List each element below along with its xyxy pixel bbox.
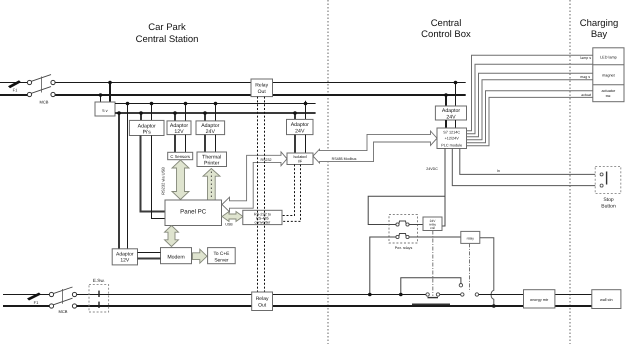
svg-text:Modem: Modem (167, 255, 184, 261)
svg-text:energy mtr: energy mtr (530, 298, 549, 302)
box energy meter (524, 290, 555, 308)
thick overlay segment near contacts (412, 303, 450, 305)
svg-text:F1: F1 (34, 300, 39, 305)
box RS232 converter (243, 210, 282, 224)
fuse F1 bottom (27, 293, 41, 306)
stop button dashed box (595, 166, 621, 209)
wire A24V top right drops (444, 81, 457, 106)
svg-text:relay: relay (467, 236, 475, 240)
svg-text:Adaptor: Adaptor (170, 123, 188, 129)
green down arrow Panel PC to Modem (165, 226, 179, 247)
svg-text:Charging: Charging (580, 18, 619, 29)
svg-text:E.Sw.: E.Sw. (93, 278, 105, 283)
section divider right (569, 0, 571, 344)
vertical label RS232 (161, 167, 166, 195)
wire long drop to Adaptor 12V (lower rail) (118, 113, 120, 249)
wire relay2 to bottom bus with hop (480, 238, 496, 308)
svg-text:Button: Button (601, 204, 616, 210)
junction dot (108, 81, 112, 85)
svg-text:+12/24V: +12/24V (445, 136, 460, 140)
svg-text:Car Park: Car Park (148, 22, 186, 33)
svg-text:Panel PC: Panel PC (180, 209, 207, 216)
box Adaptor 12V bottom (112, 249, 137, 265)
svg-text:12V: 12V (174, 129, 184, 135)
svg-text:5 v: 5 v (102, 108, 107, 113)
svg-text:Adaptor: Adaptor (138, 123, 156, 129)
box Panel PC (165, 200, 222, 226)
wires Adaptor12V to Modem (138, 253, 161, 259)
box C sensors (168, 152, 193, 159)
svg-text:24V: 24V (446, 115, 456, 121)
box Relay Out top (251, 79, 273, 97)
adaptor A3 24V (196, 121, 225, 135)
wire A1 to Panel PC (1) (141, 136, 166, 212)
svg-text:LED lamp: LED lamp (600, 56, 617, 60)
contact upper in dashed box (389, 221, 423, 226)
contact B on bus (461, 293, 479, 296)
dashed pair isolator to converter (282, 165, 301, 222)
svg-text:Server: Server (214, 257, 229, 263)
dashed relay pair top relayout to bottom relayout (258, 97, 265, 292)
contact A on bus (426, 293, 440, 296)
contact lower in dashed box (370, 234, 461, 295)
wire drop to PSU from N (100, 95, 102, 102)
svg-text:24V: 24V (206, 129, 216, 135)
wire bottom bus L (thin, with contacts) (3, 294, 592, 296)
svg-text:Pwr. relays: Pwr. relays (395, 246, 413, 250)
svg-text:MCB: MCB (40, 100, 49, 105)
svg-text:Isolated: Isolated (293, 155, 306, 159)
PSU box 5v (95, 102, 115, 116)
adaptor A4 24V (287, 119, 314, 134)
wire top bus N (0, 94, 466, 96)
dash-dot link coil to contact A (428, 231, 439, 298)
svg-text:PLC module: PLC module (441, 144, 462, 148)
svg-text:Control Box: Control Box (421, 29, 471, 40)
svg-text:Central: Central (431, 18, 462, 29)
box wall socket (592, 290, 621, 309)
wire long drop to Adaptor 12V (upper rail) (127, 104, 129, 249)
box relay coil (423, 217, 442, 231)
section divider left (327, 0, 329, 344)
wires Adaptor 24V(a) top (203, 102, 217, 121)
svg-text:mag s: mag s (580, 75, 590, 79)
charging bay device stack (593, 48, 624, 102)
svg-text:magnet: magnet (602, 74, 616, 78)
wires Adaptor 24V(b) top (293, 101, 307, 120)
svg-text:Adaptor: Adaptor (442, 108, 460, 114)
svg-text:Relay: Relay (255, 83, 268, 89)
title Central Control Box (421, 18, 471, 40)
svg-text:24VDC: 24VDC (426, 167, 438, 171)
svg-text:lamp s: lamp s (580, 56, 591, 60)
hollow arrow Panel PC to isolator (bent, double head) (222, 152, 287, 212)
svg-text:coil: coil (430, 226, 435, 230)
wires A3 to Thermal Printer (205, 135, 216, 152)
svg-text:Relay: Relay (256, 296, 269, 302)
svg-text:24V: 24V (295, 128, 305, 134)
svg-text:wall stn: wall stn (600, 298, 613, 302)
PLC fan-out wires to charging bay (467, 55, 593, 146)
svg-text:F1: F1 (13, 88, 18, 93)
junction dot (99, 93, 103, 97)
svg-text:In: In (497, 169, 500, 173)
wires A4 to isolator (295, 135, 306, 153)
svg-text:Out: Out (258, 89, 267, 95)
hollow arrow isolator to PLC (bent, double head) (313, 131, 437, 163)
svg-text:RS232: RS232 (261, 158, 272, 162)
svg-text:I/F: I/F (298, 160, 303, 164)
box Relay Out bottom (252, 292, 273, 311)
green double arrow C sensors to Panel PC (172, 160, 189, 200)
title Charging Bay (580, 18, 619, 40)
wires PLC to stop button (452, 149, 595, 186)
wire bypass loop over contact A (399, 278, 463, 297)
green double arrow Panel PC to converter (222, 212, 243, 227)
dashed contactor box (389, 215, 418, 250)
svg-text:Adaptor: Adaptor (201, 123, 219, 129)
svg-text:Pi's: Pi's (143, 130, 152, 136)
fan wire labels (580, 56, 591, 97)
dash-dot link relay2 to contact B (469, 243, 471, 291)
svg-text:Thermal: Thermal (202, 154, 221, 160)
svg-text:Adaptor: Adaptor (116, 251, 134, 257)
box Thermal Printer (197, 152, 227, 167)
title Car Park Central Station (136, 22, 199, 45)
svg-text:C Sensors: C Sensors (170, 154, 190, 159)
svg-text:RS232 via USB: RS232 via USB (161, 167, 166, 195)
svg-text:Out: Out (258, 303, 267, 309)
fuse F1 top (8, 80, 21, 92)
svg-text:S7 1214C: S7 1214C (443, 131, 460, 135)
box Modem (161, 248, 192, 264)
box To C+E Server (208, 248, 236, 264)
wire DC rail upper (115, 103, 316, 105)
svg-text:Bay: Bay (591, 29, 608, 40)
wires Adaptor 12V top (173, 102, 187, 121)
adaptor A5 24V (435, 106, 466, 121)
svg-text:Adaptor: Adaptor (291, 122, 309, 128)
switch MCB top (double pole) (27, 75, 55, 105)
E switch dashed box (89, 278, 109, 312)
wires Adaptor Pi's (139, 102, 153, 121)
svg-text:MCB: MCB (59, 309, 68, 314)
wire top bus L (0, 82, 466, 84)
wire PLC down loop to relay contacts (368, 149, 445, 227)
label 24VDC (426, 167, 438, 171)
svg-text:Printer: Printer (204, 161, 220, 167)
wires A5 to PLC (446, 120, 456, 128)
svg-text:actuator: actuator (602, 89, 616, 93)
box isolator (287, 153, 313, 165)
wire drop to PSU from L (109, 83, 111, 103)
switch MCB bottom (double pole) (49, 287, 76, 314)
adaptor A2 12V (167, 121, 191, 135)
wire DC rail lower (115, 112, 316, 114)
box PLC module (437, 128, 467, 149)
svg-text:To C+E: To C+E (213, 251, 229, 257)
box relay 2 (461, 231, 480, 243)
svg-text:12V: 12V (120, 258, 130, 264)
adaptor A1 Pi's (129, 120, 164, 135)
svg-text:USB: USB (225, 223, 233, 227)
svg-text:Stop: Stop (603, 197, 614, 203)
svg-text:sw.: sw. (606, 94, 612, 98)
svg-text:Central Station: Central Station (136, 34, 199, 45)
wire bottom bus N (thick) (3, 305, 592, 307)
svg-text:converter: converter (254, 221, 271, 225)
wire A1 to Panel PC (2) (152, 136, 166, 219)
wires A2 to C sensors (175, 135, 186, 153)
svg-text:RS485 Modbus: RS485 Modbus (332, 157, 357, 161)
green up arrow Panel PC to printer (203, 169, 220, 201)
junction dot lower contact drop (368, 293, 372, 297)
green right arrow Modem to server (193, 249, 208, 263)
svg-text:actuat: actuat (581, 93, 591, 97)
junction dot (126, 102, 130, 106)
junction dot (117, 111, 121, 115)
